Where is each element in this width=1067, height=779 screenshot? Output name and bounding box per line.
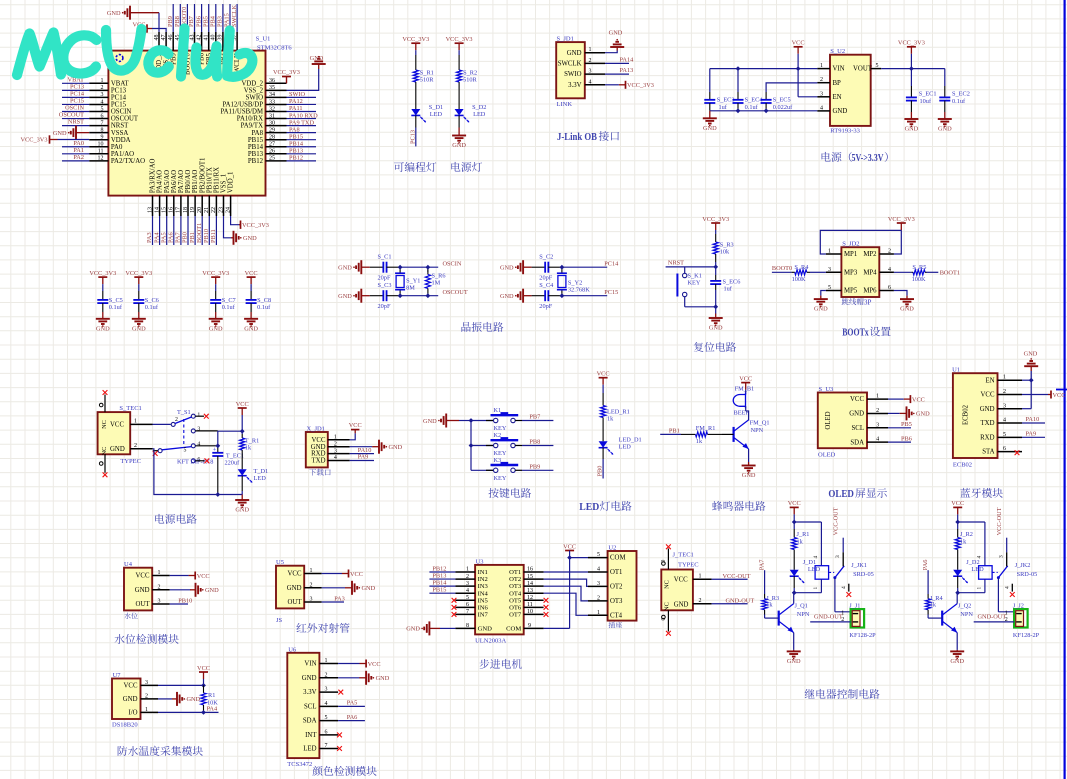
wire net PB11 bbox=[215, 216, 217, 245]
U1 pin 20 (PB2/BOOT1) bbox=[201, 196, 203, 216]
wire net PA4 bbox=[159, 216, 161, 245]
svg-text:29: 29 bbox=[269, 127, 275, 133]
S_JD2 pin 5 (MP5) bbox=[826, 290, 842, 292]
no-connect X bbox=[544, 612, 549, 617]
svg-text:PB2/BOOT1: PB2/BOOT1 bbox=[199, 158, 206, 194]
ground bbox=[956, 650, 958, 652]
svg-text:1: 1 bbox=[1005, 611, 1008, 617]
svg-text:4: 4 bbox=[820, 105, 823, 111]
U6 pin 3 (3.3V) bbox=[319, 691, 338, 693]
svg-text:2: 2 bbox=[101, 85, 104, 91]
relay contact stub bbox=[848, 584, 850, 592]
wire net PA13 bbox=[605, 73, 629, 75]
svg-text:32.768K: 32.768K bbox=[568, 287, 590, 294]
svg-text:S_C6: S_C6 bbox=[145, 297, 159, 304]
wire net PA6 bbox=[173, 216, 175, 245]
svg-text:VDDA: VDDA bbox=[111, 137, 131, 144]
svg-text:GND: GND bbox=[674, 601, 689, 608]
wire VCC to MP1/MP2 bbox=[820, 230, 901, 254]
U6 pin 4 (SCL) bbox=[319, 705, 338, 707]
capacitor S_C6 bbox=[138, 291, 140, 300]
svg-text:1: 1 bbox=[466, 567, 469, 573]
U6 pin 2 (GND) bbox=[319, 677, 338, 679]
wire bbox=[102, 284, 104, 291]
wire net PB1 bbox=[194, 216, 196, 245]
svg-text:PA1: PA1 bbox=[73, 147, 84, 154]
svg-text:CT4: CT4 bbox=[610, 612, 623, 619]
svg-text:S_C3: S_C3 bbox=[378, 282, 392, 289]
wire GND pin3 bbox=[1030, 380, 1032, 409]
wire net PB13 bbox=[429, 578, 455, 580]
U3 pin 5 (IN5) bbox=[455, 599, 475, 601]
svg-text:S_R2: S_R2 bbox=[463, 70, 477, 77]
S_U3 pin 4 (SDA) bbox=[867, 441, 888, 443]
svg-text:4: 4 bbox=[813, 556, 819, 559]
svg-text:GND: GND bbox=[709, 325, 723, 332]
svg-text:PA3: PA3 bbox=[146, 232, 153, 243]
wire net BOOT1 bbox=[201, 216, 203, 245]
svg-text:PB9: PB9 bbox=[167, 16, 174, 27]
wire VCC bbox=[158, 684, 204, 686]
wire net PC13 bbox=[415, 128, 417, 147]
no-connect X bbox=[103, 390, 108, 395]
U3 pin 9 (COM) bbox=[524, 627, 544, 629]
U1 pin 1 (VBAT) bbox=[89, 82, 108, 84]
svg-text:PA9: PA9 bbox=[1026, 431, 1037, 438]
wire bbox=[745, 406, 747, 411]
svg-text:OLED: OLED bbox=[825, 411, 832, 429]
wire bbox=[415, 50, 417, 55]
ground bbox=[715, 314, 717, 319]
label 复位电路 bbox=[694, 342, 704, 352]
U3 pin 13 (OT4) bbox=[524, 592, 544, 594]
power flag VCC_3V3 bbox=[411, 42, 420, 44]
no-connect X bbox=[337, 733, 342, 738]
capacitor bbox=[944, 86, 946, 97]
svg-text:LED: LED bbox=[430, 111, 443, 118]
ground bbox=[138, 312, 140, 319]
resistor S_R2 bbox=[458, 55, 460, 70]
svg-text:VOUT: VOUT bbox=[853, 66, 873, 73]
power flag VCC bbox=[909, 395, 911, 403]
svg-text:2: 2 bbox=[334, 441, 337, 447]
svg-text:GND-OUT: GND-OUT bbox=[978, 613, 1007, 620]
U1 pin 48 (VDD_3) bbox=[158, 32, 160, 51]
svg-text:PA9/TX: PA9/TX bbox=[241, 123, 264, 130]
svg-text:TYPEC: TYPEC bbox=[678, 562, 699, 569]
U1 pin 23 (VSS_1) bbox=[223, 196, 225, 216]
svg-text:STM32C8T6: STM32C8T6 bbox=[257, 45, 292, 52]
U1 pin 32 (PA11/USB/DM) bbox=[266, 111, 287, 113]
svg-text:TYPEC: TYPEC bbox=[120, 458, 141, 465]
svg-text:J_TEC1: J_TEC1 bbox=[673, 552, 694, 559]
svg-text:26: 26 bbox=[269, 149, 275, 155]
label 颜色检测模块 bbox=[312, 766, 322, 776]
U2 pin 1 (VIN) bbox=[817, 68, 830, 70]
wire net BOOT0 bbox=[186, 4, 188, 32]
svg-text:6: 6 bbox=[466, 602, 469, 608]
wire net PA11 bbox=[287, 111, 317, 113]
svg-text:PA5: PA5 bbox=[347, 700, 358, 707]
power flag VCC_3V3 at U1 pin 36 bbox=[286, 77, 288, 84]
resistor bbox=[957, 529, 959, 538]
ground bbox=[523, 266, 532, 268]
power flag VCC_3V3 bbox=[455, 42, 464, 44]
svg-text:3: 3 bbox=[597, 581, 600, 587]
U1 pin 7 (NRST) bbox=[89, 125, 108, 127]
S_JD2 pin 1 (MP1) bbox=[826, 253, 842, 255]
wire to connector bbox=[834, 578, 836, 612]
svg-text:INT: INT bbox=[305, 732, 317, 739]
U5 pin 2 (GND) bbox=[304, 587, 322, 589]
LED S_D2 bbox=[458, 97, 460, 109]
label 按键电路 bbox=[489, 488, 499, 498]
label 晶振电路 bbox=[461, 322, 470, 332]
svg-text:SWIO: SWIO bbox=[246, 95, 263, 102]
svg-text:1: 1 bbox=[310, 568, 313, 574]
svg-text:VCC: VCC bbox=[110, 422, 124, 429]
U4 pin 1 (VCC) bbox=[152, 575, 170, 577]
svg-text:16: 16 bbox=[527, 567, 533, 573]
svg-text:4: 4 bbox=[888, 267, 891, 273]
wire net PB0 bbox=[602, 459, 604, 479]
ground bbox=[748, 462, 750, 466]
svg-text:1: 1 bbox=[589, 47, 592, 53]
ground at U1 pin 23 VSS_1 bbox=[224, 216, 232, 238]
ground bbox=[910, 112, 912, 119]
resistor bbox=[792, 271, 795, 273]
svg-text:14: 14 bbox=[154, 207, 160, 213]
svg-text:3: 3 bbox=[197, 427, 200, 433]
wire bbox=[250, 284, 252, 291]
wire net GND-OUT bbox=[712, 603, 748, 605]
svg-text:1: 1 bbox=[699, 573, 702, 579]
U6 pin 7 (LED) bbox=[319, 748, 338, 750]
sheet border right edge bbox=[1063, 0, 1065, 779]
wire top node bbox=[957, 514, 959, 529]
svg-text:8: 8 bbox=[101, 127, 104, 133]
svg-text:VCC: VCC bbox=[792, 40, 805, 47]
svg-text:PB14: PB14 bbox=[289, 140, 304, 147]
capacitor bbox=[737, 92, 739, 100]
no-connect X bbox=[204, 414, 209, 419]
svg-text:OSCOUT: OSCOUT bbox=[111, 116, 139, 123]
wire net SWIO bbox=[287, 96, 317, 98]
wire net PA15 bbox=[229, 4, 231, 32]
svg-text:OT5: OT5 bbox=[509, 597, 522, 604]
svg-text:SRD-05: SRD-05 bbox=[853, 571, 874, 578]
U1 pin 22 (PB11/RX) bbox=[215, 196, 217, 216]
svg-text:J_JK1: J_JK1 bbox=[851, 562, 867, 569]
svg-text:19: 19 bbox=[190, 207, 196, 213]
power flag VCC bbox=[348, 570, 350, 578]
svg-text:3: 3 bbox=[998, 555, 1004, 558]
U2 pin 3 (OT2) bbox=[588, 585, 608, 587]
S_JD1 pin 3 (SWIO) bbox=[585, 73, 605, 75]
U3 pin 15 (OT2) bbox=[524, 578, 544, 580]
svg-text:J_JK2: J_JK2 bbox=[1015, 562, 1031, 569]
svg-text:1: 1 bbox=[158, 570, 161, 576]
svg-text:3: 3 bbox=[820, 91, 823, 97]
U1 pin 2 (VCC) bbox=[998, 393, 1023, 395]
svg-text:5: 5 bbox=[1003, 432, 1006, 438]
U3 pin 16 (OT1) bbox=[524, 571, 544, 573]
svg-text:100K: 100K bbox=[792, 276, 806, 283]
svg-text:2: 2 bbox=[134, 443, 137, 449]
U6 pin 5 (SDA) bbox=[319, 720, 338, 722]
ground bbox=[102, 312, 104, 319]
svg-text:LED: LED bbox=[303, 746, 316, 753]
svg-text:VDD_1: VDD_1 bbox=[228, 172, 235, 194]
ground bbox=[215, 312, 217, 319]
svg-text:VCC: VCC bbox=[674, 577, 688, 584]
svg-text:LED: LED bbox=[579, 501, 599, 513]
svg-text:10: 10 bbox=[527, 609, 533, 615]
svg-text:1k: 1k bbox=[797, 538, 804, 545]
svg-text:U7: U7 bbox=[113, 672, 122, 679]
wire net PA9 bbox=[287, 125, 317, 127]
svg-text:GND-OUT: GND-OUT bbox=[726, 597, 755, 604]
U5 pin 3 (OUT) bbox=[304, 601, 322, 603]
power flag VCC_3V3 bbox=[625, 81, 627, 89]
U1 pin 2 (PC13) bbox=[89, 89, 108, 91]
svg-text:GND: GND bbox=[123, 696, 138, 703]
svg-text:1: 1 bbox=[1003, 375, 1006, 381]
svg-text:4: 4 bbox=[466, 588, 469, 594]
svg-text:PC15: PC15 bbox=[70, 98, 84, 105]
svg-text:4: 4 bbox=[841, 586, 847, 589]
svg-text:S_EC5: S_EC5 bbox=[773, 96, 791, 103]
U1 pin 11 (PA1/AO) bbox=[89, 153, 108, 155]
U1 pin 44 (BOOT0) bbox=[186, 32, 188, 51]
wire to VCC bbox=[170, 575, 189, 577]
wire net OSCOUT bbox=[62, 118, 89, 120]
connector U2 body (插座) bbox=[608, 551, 637, 621]
svg-text:36: 36 bbox=[269, 78, 275, 84]
svg-text:S_U2: S_U2 bbox=[830, 48, 845, 55]
resistor T_R1 bbox=[241, 415, 243, 434]
S_JD2 pin 6 (MP6) bbox=[879, 290, 894, 292]
svg-text:PB13: PB13 bbox=[432, 573, 446, 580]
svg-text:PC13: PC13 bbox=[111, 87, 127, 94]
svg-text:PB5: PB5 bbox=[901, 421, 912, 428]
svg-text:GND: GND bbox=[500, 293, 514, 300]
svg-text:VCC: VCC bbox=[245, 270, 258, 277]
U1 pin 18 (PB0/AO) bbox=[187, 196, 189, 216]
svg-text:1: 1 bbox=[841, 611, 844, 617]
svg-text:K2: K2 bbox=[494, 432, 502, 439]
svg-text:EN: EN bbox=[985, 377, 994, 384]
svg-text:3: 3 bbox=[589, 69, 592, 75]
svg-text:KEY: KEY bbox=[494, 425, 507, 432]
svg-text:J_R2: J_R2 bbox=[960, 531, 973, 538]
svg-text:GND: GND bbox=[833, 108, 848, 115]
svg-text:NC: NC bbox=[663, 602, 670, 611]
svg-text:J_J2: J_J2 bbox=[1013, 602, 1024, 609]
U4 pin 3 (OUT) bbox=[152, 603, 170, 605]
svg-text:4: 4 bbox=[1003, 418, 1006, 424]
svg-text:TXD: TXD bbox=[981, 420, 995, 427]
ground bbox=[372, 446, 379, 448]
svg-text:PA14: PA14 bbox=[620, 56, 635, 63]
S_JD1 pin 2 (SWCLK) bbox=[585, 62, 605, 64]
J_TEC1 pin 2 (GND) bbox=[693, 603, 712, 605]
svg-text:PA6: PA6 bbox=[168, 232, 175, 243]
svg-text:GND: GND bbox=[132, 325, 146, 332]
svg-text:MP4: MP4 bbox=[863, 269, 877, 276]
svg-text:LED_D1: LED_D1 bbox=[619, 437, 642, 444]
svg-text:SCL: SCL bbox=[852, 425, 864, 432]
U1 pin 28 (PB15) bbox=[266, 139, 287, 141]
no-connect X bbox=[337, 746, 342, 751]
wire MP6 to ground bbox=[894, 291, 907, 296]
svg-text:KEY: KEY bbox=[688, 280, 701, 287]
wire net PB7 bbox=[194, 4, 196, 32]
U7 pin 1 (I/O) bbox=[141, 711, 159, 713]
ground bbox=[709, 111, 711, 119]
svg-text:S_R4: S_R4 bbox=[794, 264, 809, 271]
svg-text:4: 4 bbox=[197, 442, 200, 448]
svg-text:MP3: MP3 bbox=[844, 269, 858, 276]
svg-text:PB8: PB8 bbox=[174, 16, 181, 27]
resistor bbox=[203, 685, 205, 693]
crystal S_Y1 bbox=[399, 267, 401, 273]
svg-text:U2: U2 bbox=[608, 545, 616, 552]
svg-text:20: 20 bbox=[197, 207, 203, 213]
svg-text:GND: GND bbox=[110, 446, 125, 453]
wire bbox=[810, 271, 826, 273]
U1 pin 30 (PA9/TX) bbox=[266, 125, 287, 127]
module U1 body (ECB02) bbox=[953, 373, 998, 458]
svg-text:5: 5 bbox=[184, 448, 187, 454]
svg-text:PC15: PC15 bbox=[111, 102, 127, 109]
svg-text:VCC: VCC bbox=[350, 571, 363, 578]
U2 pin 5 (COM) bbox=[588, 557, 608, 559]
svg-text:1: 1 bbox=[828, 249, 831, 255]
svg-text:1: 1 bbox=[976, 587, 982, 590]
svg-text:S_JD2: S_JD2 bbox=[842, 241, 859, 248]
U3 pin 6 (IN6) bbox=[455, 606, 475, 608]
svg-text:PB15: PB15 bbox=[289, 133, 303, 140]
wire net PA2 bbox=[62, 160, 89, 162]
svg-text:GND: GND bbox=[135, 587, 150, 594]
ground bbox=[944, 112, 946, 119]
ground bbox=[900, 412, 907, 414]
svg-text:U1: U1 bbox=[952, 367, 960, 374]
svg-text:30: 30 bbox=[269, 120, 275, 126]
U1 pin 8 (VSSA) bbox=[89, 132, 108, 134]
svg-text:PB9: PB9 bbox=[529, 464, 540, 471]
U3 pin 4 (IN4) bbox=[455, 592, 475, 594]
U3 pin 12 (OT5) bbox=[524, 599, 544, 601]
svg-text:LINK: LINK bbox=[557, 101, 573, 108]
svg-text:VCC_3V3: VCC_3V3 bbox=[125, 270, 152, 277]
J_TEC1 pin 1 (VCC) bbox=[693, 578, 712, 580]
svg-text:1: 1 bbox=[134, 419, 137, 425]
svg-text:7: 7 bbox=[325, 743, 328, 749]
U1 pin 42 (PB6) bbox=[201, 32, 203, 51]
U1 pin 6 (STA) bbox=[998, 451, 1023, 453]
wire net GND-OUT bbox=[810, 621, 850, 623]
S_TEC1 shell stub top bbox=[99, 403, 103, 407]
svg-text:PA12: PA12 bbox=[289, 98, 303, 105]
U1 pin 34 (SWIO) bbox=[266, 96, 287, 98]
U3 pin 8 (GND) bbox=[455, 627, 475, 629]
power flag VCC_3V3 bbox=[897, 222, 906, 224]
svg-text:PA4/AO: PA4/AO bbox=[157, 170, 164, 193]
svg-text:VCC_3V3: VCC_3V3 bbox=[202, 270, 229, 277]
svg-text:GND: GND bbox=[900, 306, 914, 313]
LED bbox=[602, 430, 604, 441]
wire bbox=[138, 284, 140, 291]
wire net PA4 bbox=[158, 711, 219, 713]
svg-text:T_R1: T_R1 bbox=[245, 437, 259, 444]
S_TEC1 pin 2 (GND) bbox=[130, 448, 152, 450]
svg-text:S_EC2: S_EC2 bbox=[952, 91, 970, 98]
LED bbox=[241, 454, 243, 469]
svg-text:PA15: PA15 bbox=[224, 13, 231, 27]
svg-text:OLED: OLED bbox=[818, 452, 836, 459]
resistor S_R1 bbox=[415, 55, 417, 70]
resistor bbox=[241, 434, 243, 438]
svg-text:VCC_3V3: VCC_3V3 bbox=[627, 82, 654, 89]
svg-text:GND: GND bbox=[243, 235, 257, 242]
svg-text:PB1/AO: PB1/AO bbox=[192, 170, 199, 194]
wire BP to EC5 bbox=[766, 83, 817, 92]
relay switch J_JK1 bbox=[829, 571, 835, 573]
svg-text:EN: EN bbox=[833, 94, 842, 101]
U1 pin 45 (PB8) bbox=[179, 32, 181, 51]
power flag VCC bbox=[953, 506, 962, 508]
wire net VCC_3V3 bbox=[605, 84, 619, 86]
svg-text:DS18B20: DS18B20 bbox=[112, 722, 138, 729]
svg-text:20pF: 20pF bbox=[378, 275, 391, 282]
svg-text:S_D2: S_D2 bbox=[472, 104, 486, 111]
svg-text:SWCLK: SWCLK bbox=[231, 5, 238, 27]
wire net PA1 bbox=[62, 153, 89, 155]
regulator U2 body bbox=[830, 55, 871, 126]
svg-text:SDA: SDA bbox=[850, 439, 864, 446]
svg-text:PB15: PB15 bbox=[432, 587, 446, 594]
svg-text:OSCOUT: OSCOUT bbox=[443, 289, 468, 296]
svg-text:PA8: PA8 bbox=[289, 126, 300, 133]
svg-text:11: 11 bbox=[527, 602, 533, 608]
svg-text:COM: COM bbox=[610, 555, 626, 562]
MCUclub logo bbox=[17, 33, 61, 76]
U3 pin 3 (IN3) bbox=[455, 585, 475, 587]
U7 pin 3 (VCC) bbox=[141, 684, 159, 686]
svg-text:43: 43 bbox=[189, 35, 195, 41]
relay coil J_JK1 bbox=[815, 566, 829, 580]
svg-text:4: 4 bbox=[597, 567, 600, 573]
svg-text:S_R3: S_R3 bbox=[720, 242, 734, 249]
wire bbox=[458, 50, 460, 55]
wire base bbox=[764, 615, 766, 619]
svg-text:TCS3472: TCS3472 bbox=[287, 761, 312, 768]
svg-text:2: 2 bbox=[1005, 617, 1008, 623]
svg-text:220uf: 220uf bbox=[225, 460, 241, 467]
svg-text:R1: R1 bbox=[208, 692, 215, 699]
label 电源灯 bbox=[451, 162, 460, 172]
svg-text:PA12/USB/DP: PA12/USB/DP bbox=[222, 102, 263, 109]
svg-text:1: 1 bbox=[101, 78, 104, 84]
wire net PB15 bbox=[287, 139, 317, 141]
svg-text:1M: 1M bbox=[432, 280, 441, 287]
svg-text:PA6: PA6 bbox=[922, 560, 929, 571]
svg-text:27: 27 bbox=[269, 142, 275, 148]
svg-text:OUT: OUT bbox=[288, 599, 303, 606]
wire net PB8 bbox=[522, 445, 553, 447]
